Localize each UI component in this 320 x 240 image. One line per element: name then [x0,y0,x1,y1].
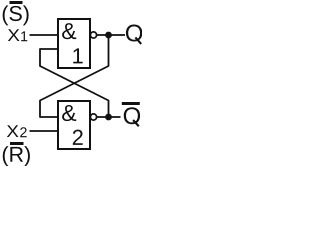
wire feedback Qbar to U1 input [40,49,109,117]
inversion bubble U1 [90,32,96,38]
inversion bubble U2 [90,114,96,120]
nand gate U2 box [58,101,90,149]
label ampersand of U1 [62,23,76,39]
wire X2 input [30,130,59,132]
label ampersand of U2 [62,105,76,121]
wire Q output [97,34,125,36]
nand gate U1 box [58,19,90,68]
junction node Qbar [105,114,112,121]
label 2 of U2 [73,130,83,145]
label X2 [7,125,19,137]
junction node Q [105,32,112,39]
label 1 of U1 [73,48,82,63]
label Q [126,25,142,42]
wire Qbar output [97,116,121,118]
label Q-bar [124,107,140,124]
wire feedback Q to U2 input [40,35,109,117]
wire X1 input [30,34,59,36]
label R-bar input name [3,146,30,166]
label X1 [8,29,20,41]
label S-bar input name [3,5,29,25]
